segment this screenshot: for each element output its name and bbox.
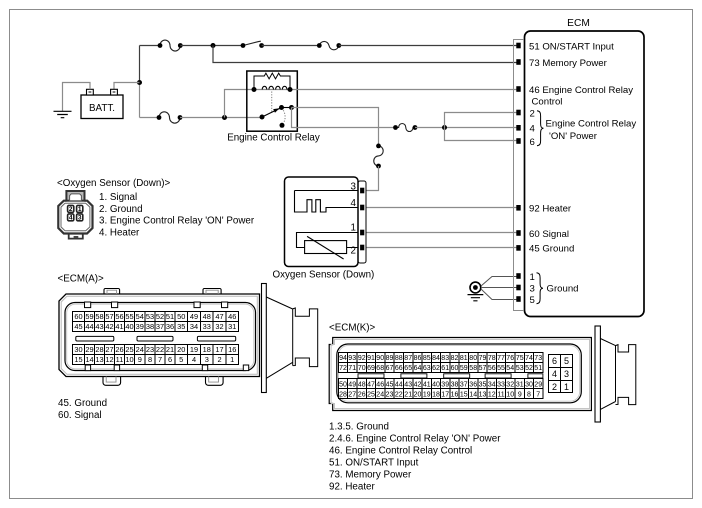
node: battery positive junction bbox=[137, 80, 142, 85]
ground (battery) bbox=[54, 111, 72, 117]
svg-text:46 Engine Control Relay: 46 Engine Control Relay bbox=[529, 85, 633, 96]
svg-text:57: 57 bbox=[479, 365, 487, 372]
ECM pins (squares) bbox=[516, 43, 520, 302]
svg-text:4: 4 bbox=[192, 355, 196, 364]
svg-text:8: 8 bbox=[527, 391, 531, 398]
svg-text:79: 79 bbox=[479, 355, 487, 362]
wire: junction down and right to ECM pin 73 bbox=[213, 46, 517, 63]
svg-text:2.4.6. Engine Control Relay 'O: 2.4.6. Engine Control Relay 'ON' Power bbox=[329, 433, 501, 444]
svg-text:86: 86 bbox=[414, 355, 422, 362]
svg-text:52: 52 bbox=[525, 365, 533, 372]
ECM(K) side plate bbox=[595, 326, 600, 422]
ECM(A) side plate bbox=[262, 284, 267, 393]
svg-text:3: 3 bbox=[351, 181, 357, 192]
svg-text:<ECM(K)>: <ECM(K)> bbox=[329, 323, 376, 334]
wire: branch to ECM pin 2 bbox=[445, 113, 518, 128]
ECM(A) end spool bbox=[293, 308, 318, 367]
svg-text:60: 60 bbox=[74, 312, 82, 321]
svg-text:4: 4 bbox=[69, 215, 73, 222]
svg-text:6: 6 bbox=[530, 137, 535, 148]
svg-text:6: 6 bbox=[552, 356, 557, 366]
wire: junction up to relay coil bbox=[225, 90, 255, 118]
wire: sensor pin 2 to ECM pin 45 ground bbox=[366, 247, 517, 249]
svg-text:1. Signal: 1. Signal bbox=[99, 192, 137, 203]
relay alternate contact (dotted) bbox=[283, 110, 285, 123]
svg-text:17: 17 bbox=[441, 391, 449, 398]
brace for ECM pins 2/4/6 bbox=[537, 111, 543, 146]
svg-text:BATT.: BATT. bbox=[89, 103, 115, 114]
ECM connector strip bbox=[514, 40, 525, 311]
ECM(A) top tabs bbox=[104, 289, 221, 295]
svg-text:49: 49 bbox=[348, 381, 356, 388]
wire: relay output down to ON power row bbox=[292, 108, 396, 128]
svg-text:91: 91 bbox=[367, 355, 375, 362]
svg-text:49: 49 bbox=[190, 312, 198, 321]
oxygen sensor connector icon bbox=[58, 191, 92, 239]
fuse F5 (vertical) bbox=[374, 146, 383, 166]
ECM U1 box bbox=[525, 31, 645, 317]
svg-text:27: 27 bbox=[105, 345, 113, 354]
svg-text:42: 42 bbox=[414, 381, 422, 388]
svg-text:29: 29 bbox=[85, 345, 93, 354]
svg-text:4. Heater: 4. Heater bbox=[99, 228, 140, 239]
svg-text:51: 51 bbox=[534, 365, 542, 372]
svg-text:41: 41 bbox=[115, 322, 123, 331]
svg-text:80: 80 bbox=[469, 355, 477, 362]
svg-text:14: 14 bbox=[469, 391, 477, 398]
svg-text:22: 22 bbox=[156, 345, 164, 354]
wire: fuse F2 to ECM pin 51 bbox=[339, 45, 517, 47]
svg-text:35: 35 bbox=[177, 322, 185, 331]
svg-text:18: 18 bbox=[432, 391, 440, 398]
svg-text:<ECM(A)>: <ECM(A)> bbox=[58, 274, 105, 285]
svg-text:16: 16 bbox=[228, 345, 236, 354]
svg-text:45: 45 bbox=[74, 322, 82, 331]
svg-text:1: 1 bbox=[351, 223, 356, 234]
svg-text:36: 36 bbox=[469, 381, 477, 388]
relay coil bbox=[262, 86, 287, 89]
svg-text:66: 66 bbox=[395, 365, 403, 372]
svg-text:75: 75 bbox=[516, 355, 524, 362]
relay switch arm bbox=[262, 108, 282, 118]
svg-text:28: 28 bbox=[95, 345, 103, 354]
svg-text:27: 27 bbox=[348, 391, 356, 398]
node: ON power branch junction bbox=[442, 125, 447, 130]
svg-text:44: 44 bbox=[395, 381, 403, 388]
svg-text:Ground: Ground bbox=[547, 284, 579, 295]
svg-text:35: 35 bbox=[479, 381, 487, 388]
node: junction to memory-power branch bbox=[211, 43, 216, 48]
wire: sensor pin 4 to ECM pin 92 heater bbox=[366, 207, 517, 209]
svg-text:83: 83 bbox=[441, 355, 449, 362]
svg-text:3. Engine Control Relay 'ON' P: 3. Engine Control Relay 'ON' Power bbox=[99, 216, 255, 227]
svg-text:25: 25 bbox=[367, 391, 375, 398]
svg-text:15: 15 bbox=[460, 391, 468, 398]
svg-text:46: 46 bbox=[228, 312, 236, 321]
svg-text:3: 3 bbox=[78, 215, 82, 222]
svg-text:Engine Control Relay: Engine Control Relay bbox=[546, 118, 637, 129]
svg-text:29: 29 bbox=[534, 381, 542, 388]
ECM(A) bottom tabs bbox=[103, 377, 223, 386]
svg-text:51: 51 bbox=[166, 312, 174, 321]
ECM(A) inner edge notches bbox=[85, 302, 249, 371]
sensor cell top plate (pin 3 line) bbox=[295, 190, 359, 192]
wire: battery junction to fuse (ON/START run) bbox=[140, 45, 161, 47]
svg-text:5: 5 bbox=[564, 356, 569, 366]
svg-text:77: 77 bbox=[497, 355, 505, 362]
sensor heater loop (pin 1) bbox=[297, 233, 359, 248]
svg-text:51 ON/START Input: 51 ON/START Input bbox=[529, 41, 614, 52]
svg-text:23: 23 bbox=[146, 345, 154, 354]
brace for ECM pins 1/3/5 bbox=[537, 273, 543, 304]
svg-text:22: 22 bbox=[395, 391, 403, 398]
ECM(A) pin grid bbox=[73, 312, 239, 365]
svg-text:60: 60 bbox=[451, 365, 459, 372]
svg-text:67: 67 bbox=[386, 365, 394, 372]
svg-text:8: 8 bbox=[148, 355, 152, 364]
svg-text:1: 1 bbox=[530, 272, 535, 283]
svg-text:54: 54 bbox=[506, 365, 514, 372]
svg-text:19: 19 bbox=[423, 391, 431, 398]
sensor heater resistor bbox=[305, 241, 347, 254]
svg-text:46. Engine Control Relay Contr: 46. Engine Control Relay Control bbox=[329, 445, 472, 456]
svg-text:33: 33 bbox=[203, 322, 211, 331]
svg-text:11: 11 bbox=[116, 355, 124, 364]
svg-text:24: 24 bbox=[136, 345, 144, 354]
fuse F4 bbox=[396, 124, 416, 132]
svg-text:26: 26 bbox=[115, 345, 123, 354]
svg-text:90: 90 bbox=[376, 355, 384, 362]
ECM(A) inner housing bbox=[65, 303, 256, 371]
ECM(K) boot trapezoid bbox=[600, 339, 615, 410]
svg-text:2. Ground: 2. Ground bbox=[99, 204, 143, 215]
svg-text:2: 2 bbox=[69, 206, 73, 213]
relay: Engine Control Relay box bbox=[247, 71, 297, 131]
svg-text:38: 38 bbox=[146, 322, 154, 331]
svg-text:56: 56 bbox=[115, 312, 123, 321]
svg-text:12: 12 bbox=[488, 391, 496, 398]
wire: fuse F4 to ECM pin 4 bbox=[415, 127, 517, 129]
svg-text:<Oxygen Sensor (Down)>: <Oxygen Sensor (Down)> bbox=[57, 178, 171, 189]
relay resistor bbox=[254, 73, 290, 89]
svg-text:'ON' Power: 'ON' Power bbox=[549, 131, 598, 142]
svg-text:30: 30 bbox=[525, 381, 533, 388]
svg-text:1: 1 bbox=[564, 382, 569, 392]
svg-text:57: 57 bbox=[105, 312, 113, 321]
svg-text:89: 89 bbox=[386, 355, 394, 362]
svg-text:10: 10 bbox=[125, 355, 133, 364]
svg-text:18: 18 bbox=[203, 345, 211, 354]
svg-text:3: 3 bbox=[564, 369, 569, 379]
svg-text:15: 15 bbox=[74, 355, 82, 364]
svg-text:64: 64 bbox=[414, 365, 422, 372]
ECM(K) key bars bbox=[358, 374, 543, 378]
svg-text:23: 23 bbox=[386, 391, 394, 398]
svg-text:74: 74 bbox=[525, 355, 533, 362]
svg-text:56: 56 bbox=[488, 365, 496, 372]
svg-text:60 Signal: 60 Signal bbox=[529, 229, 569, 240]
svg-text:2: 2 bbox=[217, 355, 221, 364]
svg-text:2: 2 bbox=[351, 245, 356, 256]
svg-text:93: 93 bbox=[348, 355, 356, 362]
svg-text:92: 92 bbox=[358, 355, 366, 362]
svg-text:47: 47 bbox=[367, 381, 375, 388]
svg-text:63: 63 bbox=[423, 365, 431, 372]
svg-text:4: 4 bbox=[530, 124, 536, 135]
svg-text:6: 6 bbox=[168, 355, 172, 364]
svg-text:2: 2 bbox=[552, 382, 557, 392]
oxygen sensor U2 body bbox=[285, 177, 359, 267]
svg-text:42: 42 bbox=[105, 322, 113, 331]
svg-text:59: 59 bbox=[460, 365, 468, 372]
wire: coil line to ECM pin 46 bbox=[254, 89, 517, 91]
svg-text:44: 44 bbox=[85, 322, 93, 331]
relay contact link bbox=[282, 107, 292, 109]
ECM(A) key slots bbox=[76, 336, 236, 341]
svg-text:11: 11 bbox=[497, 391, 504, 398]
wire: switch to fuse F2 bbox=[262, 45, 320, 47]
svg-text:20: 20 bbox=[414, 391, 422, 398]
svg-text:53: 53 bbox=[516, 365, 524, 372]
svg-text:19: 19 bbox=[190, 345, 198, 354]
ECM(A) pin numbers bbox=[74, 312, 236, 364]
wire: ground to ECM pin 3 bbox=[481, 287, 517, 289]
svg-text:32: 32 bbox=[215, 322, 223, 331]
svg-text:3: 3 bbox=[530, 283, 535, 294]
svg-text:73 Memory Power: 73 Memory Power bbox=[529, 58, 608, 69]
svg-text:87: 87 bbox=[404, 355, 412, 362]
relay armature link (dotted) bbox=[271, 92, 273, 113]
svg-text:40: 40 bbox=[125, 322, 133, 331]
svg-text:92. Heater: 92. Heater bbox=[329, 481, 375, 492]
svg-text:85: 85 bbox=[423, 355, 431, 362]
wire: fuse F1 to ignition switch bbox=[180, 45, 243, 47]
svg-text:32: 32 bbox=[506, 381, 514, 388]
svg-text:43: 43 bbox=[95, 322, 103, 331]
oxygen sensor connector strip bbox=[358, 181, 366, 263]
svg-text:39: 39 bbox=[136, 322, 144, 331]
svg-text:1: 1 bbox=[230, 355, 234, 364]
ECM(K) inner housing bbox=[337, 344, 582, 403]
svg-text:36: 36 bbox=[166, 322, 174, 331]
svg-text:5: 5 bbox=[530, 295, 535, 306]
svg-text:73. Memory Power: 73. Memory Power bbox=[329, 469, 412, 480]
svg-text:5: 5 bbox=[179, 355, 183, 364]
node: relay feed junction bbox=[222, 115, 227, 120]
ECM pin labels bbox=[529, 41, 636, 306]
svg-text:24: 24 bbox=[376, 391, 384, 398]
fuse F1 bbox=[160, 40, 180, 51]
wire: branch to ECM pin 6 bbox=[445, 128, 518, 141]
svg-text:9: 9 bbox=[518, 391, 522, 398]
svg-text:Engine Control Relay: Engine Control Relay bbox=[227, 133, 320, 144]
ECM(K) pin grid bbox=[339, 353, 544, 399]
svg-text:61: 61 bbox=[441, 365, 449, 372]
svg-text:10: 10 bbox=[506, 391, 514, 398]
svg-text:46: 46 bbox=[376, 381, 384, 388]
svg-text:48: 48 bbox=[203, 312, 211, 321]
chassis ground G1 bbox=[470, 282, 481, 293]
svg-text:38: 38 bbox=[451, 381, 459, 388]
ECM(K) pin numbers bbox=[339, 355, 542, 398]
svg-text:52: 52 bbox=[156, 312, 164, 321]
svg-text:Oxygen Sensor (Down): Oxygen Sensor (Down) bbox=[273, 269, 375, 280]
svg-text:34: 34 bbox=[488, 381, 496, 388]
svg-text:94: 94 bbox=[339, 355, 347, 362]
ECM(K) outer shell bbox=[329, 338, 591, 411]
svg-text:43: 43 bbox=[404, 381, 412, 388]
svg-text:4: 4 bbox=[351, 198, 357, 209]
svg-text:26: 26 bbox=[358, 391, 366, 398]
svg-text:21: 21 bbox=[404, 391, 412, 398]
wire: ground to ECM pin 5 bbox=[481, 289, 517, 300]
svg-text:55: 55 bbox=[125, 312, 133, 321]
svg-text:73: 73 bbox=[534, 355, 542, 362]
svg-text:Control: Control bbox=[532, 96, 563, 107]
svg-text:59: 59 bbox=[85, 312, 93, 321]
wire: junction to battery + terminal bbox=[114, 83, 140, 90]
sensor pin numbers bbox=[351, 181, 357, 256]
battery BATT. bbox=[81, 95, 123, 119]
svg-text:2: 2 bbox=[530, 108, 535, 119]
svg-text:13: 13 bbox=[479, 391, 487, 398]
svg-text:71: 71 bbox=[348, 365, 356, 372]
svg-text:20: 20 bbox=[177, 345, 185, 354]
svg-text:41: 41 bbox=[423, 381, 431, 388]
svg-text:72: 72 bbox=[339, 365, 347, 372]
svg-text:60. Signal: 60. Signal bbox=[58, 410, 102, 421]
svg-text:48: 48 bbox=[358, 381, 366, 388]
fuse F3 bbox=[159, 112, 180, 123]
svg-text:37: 37 bbox=[156, 322, 164, 331]
svg-text:51. ON/START Input: 51. ON/START Input bbox=[329, 457, 419, 468]
svg-text:50: 50 bbox=[339, 381, 347, 388]
oxygen sensor pin list bbox=[99, 192, 255, 239]
sensor signal element (square wave to pin 4) bbox=[295, 191, 359, 213]
svg-text:34: 34 bbox=[190, 322, 198, 331]
ECM(A) boot trapezoid bbox=[266, 297, 292, 378]
fuse F2 bbox=[319, 41, 339, 49]
svg-text:82: 82 bbox=[451, 355, 459, 362]
oxygen sensor pins bbox=[360, 188, 364, 251]
svg-text:58: 58 bbox=[95, 312, 103, 321]
svg-text:12: 12 bbox=[105, 355, 113, 364]
svg-text:92 Heater: 92 Heater bbox=[529, 204, 572, 215]
svg-text:58: 58 bbox=[469, 365, 477, 372]
ECM(A) outer shell bbox=[59, 294, 260, 377]
wire: relay output to sensor pin 3 (right then down) bbox=[292, 108, 379, 146]
wire: battery - terminal to ground bbox=[63, 83, 91, 112]
svg-text:84: 84 bbox=[432, 355, 440, 362]
svg-text:39: 39 bbox=[441, 381, 449, 388]
wire: sensor pin 1 to ECM pin 60 signal bbox=[366, 232, 517, 234]
ECM(K) auxiliary 2x3 grid (pins 1-6) bbox=[549, 355, 573, 393]
ECM(K) end spool bbox=[616, 345, 636, 405]
ECM(A) legend bbox=[58, 398, 107, 421]
svg-text:55: 55 bbox=[497, 365, 505, 372]
svg-text:16: 16 bbox=[451, 391, 459, 398]
svg-text:1: 1 bbox=[78, 206, 82, 213]
svg-text:31: 31 bbox=[516, 381, 524, 388]
svg-text:45: 45 bbox=[386, 381, 394, 388]
svg-text:47: 47 bbox=[215, 312, 223, 321]
sensor heater diagonal bbox=[307, 236, 344, 259]
svg-text:70: 70 bbox=[358, 365, 366, 372]
svg-text:69: 69 bbox=[367, 365, 375, 372]
svg-text:30: 30 bbox=[74, 345, 82, 354]
svg-text:4: 4 bbox=[552, 369, 557, 379]
wire: ground to ECM pin 1 bbox=[481, 277, 517, 287]
svg-text:14: 14 bbox=[85, 355, 93, 364]
ignition switch bbox=[243, 41, 261, 45]
svg-text:53: 53 bbox=[146, 312, 154, 321]
ECM(K) legend bbox=[329, 421, 501, 492]
svg-text:76: 76 bbox=[506, 355, 514, 362]
wire: battery feed to fuse F3 bbox=[140, 117, 160, 119]
svg-text:88: 88 bbox=[395, 355, 403, 362]
svg-text:54: 54 bbox=[136, 312, 144, 321]
svg-text:1.3.5. Ground: 1.3.5. Ground bbox=[329, 421, 389, 432]
svg-text:ECM: ECM bbox=[567, 18, 590, 29]
svg-text:65: 65 bbox=[404, 365, 412, 372]
svg-text:9: 9 bbox=[138, 355, 142, 364]
svg-text:81: 81 bbox=[460, 355, 468, 362]
svg-text:7: 7 bbox=[158, 355, 162, 364]
svg-text:68: 68 bbox=[376, 365, 384, 372]
svg-text:37: 37 bbox=[460, 381, 468, 388]
svg-text:31: 31 bbox=[228, 322, 236, 331]
svg-text:45. Ground: 45. Ground bbox=[58, 398, 107, 409]
svg-text:25: 25 bbox=[125, 345, 133, 354]
svg-text:3: 3 bbox=[205, 355, 209, 364]
svg-text:78: 78 bbox=[488, 355, 496, 362]
wire: fuse F5 down to sensor pin 3 bbox=[366, 166, 379, 191]
svg-text:13: 13 bbox=[95, 355, 103, 364]
svg-text:33: 33 bbox=[497, 381, 505, 388]
svg-text:62: 62 bbox=[432, 365, 440, 372]
svg-text:21: 21 bbox=[166, 345, 174, 354]
wire: vertical battery feed (lower) bbox=[139, 83, 141, 118]
svg-text:40: 40 bbox=[432, 381, 440, 388]
wire: vertical battery feed (upper) bbox=[139, 46, 141, 83]
svg-text:7: 7 bbox=[536, 391, 540, 398]
svg-text:28: 28 bbox=[339, 391, 347, 398]
svg-text:50: 50 bbox=[177, 312, 185, 321]
wire: fuse F3 to relay switch bbox=[180, 117, 262, 119]
svg-text:17: 17 bbox=[215, 345, 223, 354]
svg-text:45 Ground: 45 Ground bbox=[529, 244, 574, 255]
